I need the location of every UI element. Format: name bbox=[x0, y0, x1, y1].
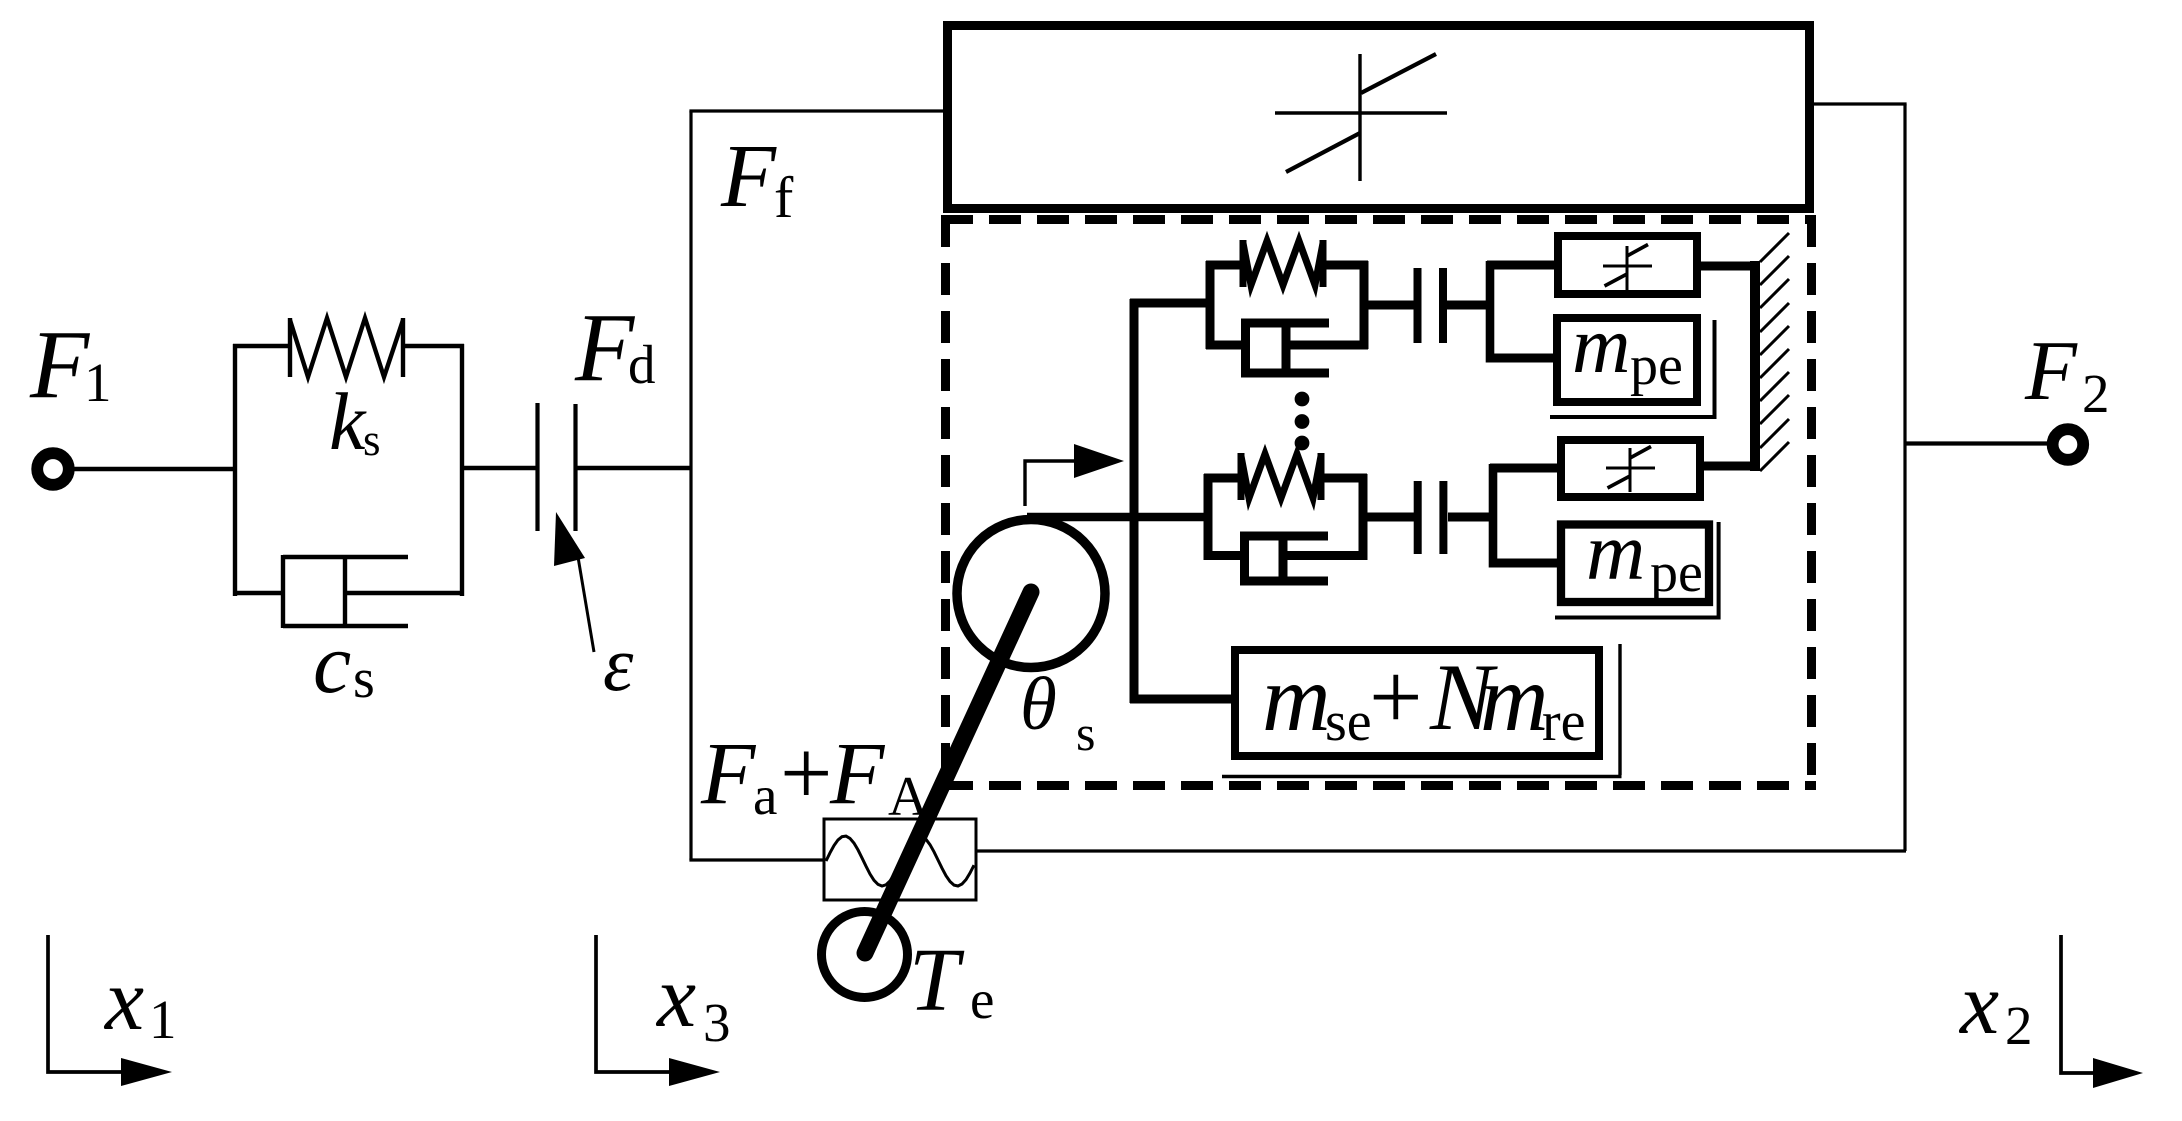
svg-text:c: c bbox=[313, 615, 351, 711]
lower spring bbox=[1241, 453, 1321, 500]
wire bus to upper KV unit bbox=[1130, 299, 1207, 308]
actuator box with sine bbox=[824, 819, 976, 900]
label Fd bbox=[574, 294, 656, 401]
lower KV frame bbox=[1204, 474, 1367, 560]
label Ff bbox=[720, 127, 794, 230]
terminal F1 bbox=[37, 453, 69, 485]
rotation arrow theta bbox=[1025, 461, 1076, 506]
wire crank to lower KV unit bbox=[1027, 513, 1210, 521]
svg-text:k: k bbox=[329, 376, 367, 467]
svg-text:f: f bbox=[774, 165, 794, 230]
damper cs bbox=[283, 555, 408, 628]
wires lower gap bbox=[1367, 513, 1414, 522]
shadow of upper mpe box bbox=[1713, 320, 1717, 417]
svg-text:a: a bbox=[753, 765, 777, 826]
coordinate marker x1 bbox=[48, 935, 121, 1072]
svg-text:ε: ε bbox=[603, 621, 634, 707]
svg-text:+: + bbox=[780, 722, 832, 825]
lower mass box mpe bbox=[1561, 525, 1709, 603]
ground wall bbox=[1750, 261, 1760, 471]
svg-text:3: 3 bbox=[703, 992, 731, 1053]
wire lower friction box to wall bbox=[1700, 462, 1757, 471]
svg-text:re: re bbox=[1542, 691, 1586, 753]
upper mass box mpe bbox=[1557, 318, 1697, 402]
svg-text:s: s bbox=[353, 648, 375, 710]
wire bus to mass box bbox=[1130, 695, 1236, 704]
coordinate marker x2 bbox=[2061, 935, 2093, 1073]
label F2 bbox=[2024, 324, 2110, 424]
backlash symbol in friction box bbox=[1275, 54, 1447, 181]
label Te bbox=[909, 931, 994, 1030]
svg-text:F: F bbox=[720, 127, 777, 226]
node frame of ks/cs parallel unit bbox=[233, 344, 464, 596]
svg-text:+: + bbox=[1369, 644, 1423, 750]
svg-text:A: A bbox=[888, 766, 929, 828]
bus wire vertical bbox=[1130, 299, 1139, 703]
upper spring bbox=[1243, 240, 1323, 287]
sine wave bbox=[826, 836, 974, 886]
label mpe upper bbox=[1572, 300, 1683, 397]
mass box mse+Nmre bbox=[1235, 650, 1599, 756]
label epsilon bbox=[603, 621, 634, 707]
svg-text:x: x bbox=[103, 952, 144, 1049]
motor circle Te bbox=[822, 912, 908, 998]
svg-text:s: s bbox=[1076, 705, 1095, 761]
svg-text:x: x bbox=[1958, 956, 1999, 1053]
upper KV frame bbox=[1206, 261, 1368, 349]
wire outer box to F2 bbox=[1905, 441, 2048, 445]
svg-text:m: m bbox=[1262, 645, 1331, 751]
coordinate marker x3 bbox=[596, 935, 669, 1072]
label theta s bbox=[1020, 663, 1095, 761]
svg-text:θ: θ bbox=[1020, 663, 1057, 746]
dashed subsystem box bbox=[941, 215, 1816, 790]
label mse+Nmre bbox=[1262, 644, 1586, 753]
crank disc bbox=[957, 520, 1105, 668]
svg-text:1: 1 bbox=[84, 352, 112, 413]
svg-text:x: x bbox=[655, 949, 696, 1046]
svg-text:m: m bbox=[1480, 645, 1549, 751]
upper friction box bbox=[1558, 236, 1697, 294]
label Fa+FA bbox=[700, 722, 929, 828]
spring ks bbox=[290, 318, 403, 377]
terminal F2 bbox=[2053, 429, 2084, 460]
wire spring unit to gap bbox=[462, 466, 536, 470]
upper damper bbox=[1241, 319, 1329, 378]
svg-text:F: F bbox=[700, 725, 757, 823]
svg-text:m: m bbox=[1572, 300, 1631, 390]
svg-text:pe: pe bbox=[1630, 335, 1683, 397]
upper gap plates bbox=[1414, 268, 1422, 343]
friction element box (top) bbox=[948, 26, 1810, 209]
svg-text:pe: pe bbox=[1650, 542, 1703, 604]
svg-text:T: T bbox=[909, 931, 965, 1030]
svg-text:F: F bbox=[29, 311, 91, 418]
svg-text:se: se bbox=[1325, 691, 1372, 753]
label mpe lower bbox=[1586, 506, 1703, 604]
label ks bbox=[329, 376, 381, 467]
svg-text:F: F bbox=[829, 725, 886, 823]
lower branch connector bbox=[1489, 464, 1498, 568]
lower mini backlash symbol bbox=[1606, 447, 1655, 493]
svg-text:F: F bbox=[2024, 324, 2078, 418]
svg-text:d: d bbox=[628, 334, 656, 395]
arrow epsilon pointing to gap bbox=[578, 557, 594, 652]
svg-text:2: 2 bbox=[2005, 995, 2033, 1056]
lower damper bbox=[1240, 532, 1328, 586]
upper mini backlash symbol bbox=[1603, 245, 1652, 291]
lower gap plates bbox=[1414, 481, 1422, 554]
label F1 bbox=[29, 311, 112, 418]
svg-text:m: m bbox=[1586, 506, 1645, 597]
svg-text:F: F bbox=[574, 294, 636, 401]
wire gap to outer box bbox=[577, 466, 692, 470]
shadow of lower mpe box bbox=[1717, 522, 1721, 620]
upper branch connector bbox=[1486, 261, 1495, 363]
wall hatching bbox=[1760, 233, 1789, 471]
lower friction box bbox=[1561, 440, 1700, 497]
outer box Ff bbox=[689, 104, 1906, 860]
ellipsis dots bbox=[1295, 392, 1310, 451]
wire upper friction box to wall bbox=[1697, 262, 1756, 271]
crank rod bbox=[865, 592, 1031, 953]
label cs bbox=[313, 615, 375, 711]
wires upper gap bbox=[1368, 301, 1414, 310]
gap (clearance) plates Fd bbox=[535, 403, 539, 531]
svg-text:s: s bbox=[363, 415, 381, 465]
svg-text:2: 2 bbox=[2082, 363, 2110, 424]
svg-text:1: 1 bbox=[149, 989, 177, 1050]
wire F1 to spring-damper unit bbox=[65, 467, 235, 471]
svg-text:e: e bbox=[970, 969, 994, 1030]
shadow of mass box bbox=[1618, 644, 1621, 775]
